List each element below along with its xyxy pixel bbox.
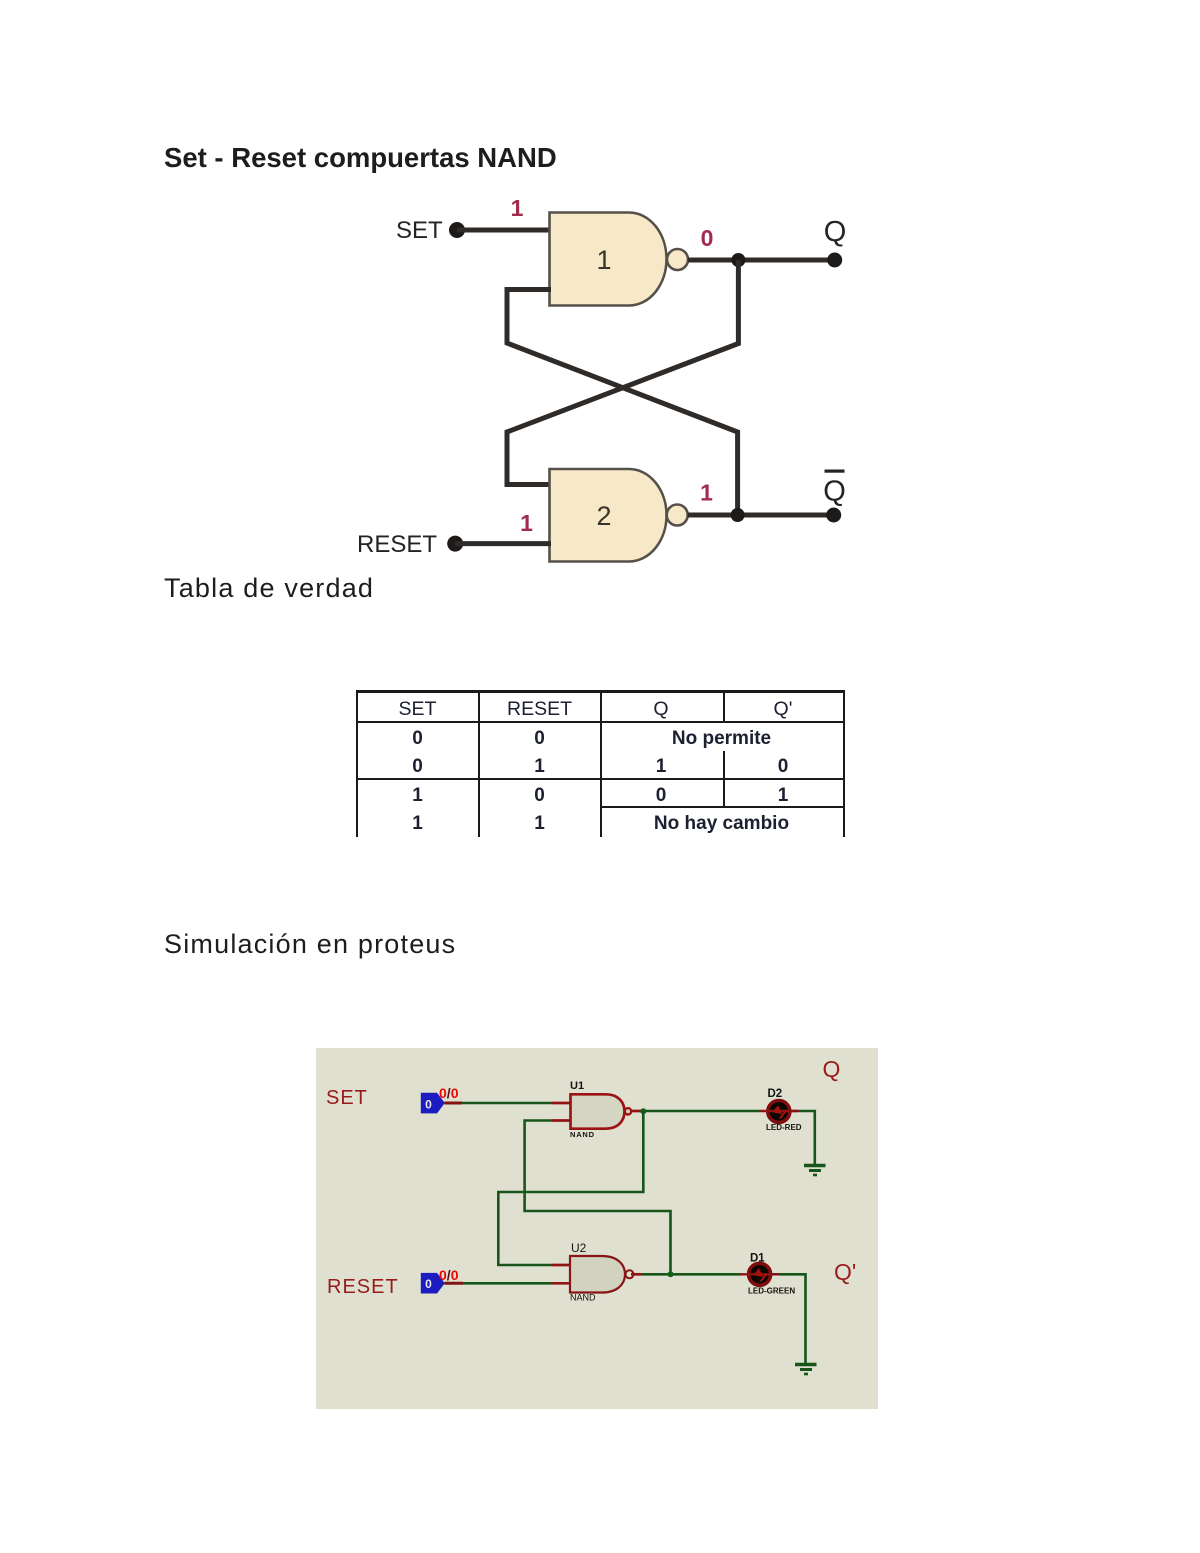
wire SET input to gate 1 — [457, 228, 551, 233]
LED D2 — [760, 1088, 802, 1132]
table divider Q/Q' rows segment — [723, 751, 725, 807]
net label Q — [823, 1056, 841, 1082]
ground symbol near D1 — [795, 1365, 817, 1375]
svg-text:0: 0 — [425, 1277, 432, 1291]
table partial row divider under Q/Q' — [600, 806, 844, 808]
wire cross-coupling from gate 1 output to gate 2 upper input — [507, 260, 738, 485]
svg-text:Q': Q' — [834, 1259, 856, 1285]
svg-text:0: 0 — [425, 1098, 432, 1112]
wire gate 2 output to Q-bar — [688, 513, 834, 518]
table row 3 — [357, 785, 478, 807]
svg-text:Q: Q — [823, 1056, 841, 1082]
net label Q' — [834, 1259, 856, 1285]
svg-text:SET: SET — [326, 1087, 368, 1109]
svg-text:LED-RED: LED-RED — [766, 1123, 802, 1132]
wire U1 output to LED D2 — [631, 1110, 760, 1113]
label RESET — [327, 1276, 399, 1298]
wire gate 1 output to Q — [688, 258, 835, 263]
LED D1 — [740, 1252, 795, 1295]
svg-text:0/0: 0/0 — [439, 1267, 459, 1283]
NAND gate 1 — [550, 213, 667, 306]
table header underline — [356, 721, 844, 723]
table header Q' — [723, 698, 843, 721]
node RESET terminal — [447, 536, 463, 552]
svg-text:NAND: NAND — [570, 1293, 596, 1303]
label Q — [824, 216, 847, 248]
logic state marker for RESET — [421, 1267, 459, 1294]
table row divider full width — [356, 778, 844, 780]
node Q terminal — [827, 253, 842, 268]
heading: Set - Reset compuertas NAND — [164, 142, 557, 174]
table divider RESET/Q — [600, 690, 602, 837]
wire SET to U1 upper input — [444, 1102, 571, 1105]
wire U2 output to LED D1 — [631, 1273, 741, 1276]
table header RESET — [479, 698, 600, 721]
label SET — [326, 1087, 368, 1109]
label RESET — [357, 531, 437, 558]
wire from U1 output junction to U2 upper input — [498, 1111, 643, 1265]
table row 2 — [357, 756, 478, 778]
table left border — [356, 690, 358, 837]
node SET terminal — [449, 222, 465, 238]
heading: Simulacion en proteus — [164, 929, 456, 960]
table row 1 — [357, 728, 478, 750]
junction node at gate 2 output — [731, 508, 745, 522]
svg-text:U2: U2 — [571, 1241, 587, 1255]
red logic value 1 on SET input — [511, 195, 524, 221]
wire LED D1 to ground — [771, 1274, 806, 1363]
red logic value 1 on gate 2 output — [700, 480, 713, 506]
NAND gate 2 — [550, 469, 667, 562]
wire from U2 output junction to U1 lower input — [525, 1121, 671, 1275]
heading: Tabla de verdad — [164, 573, 374, 604]
truth table — [0, 0, 1200, 900]
svg-text:U1: U1 — [570, 1080, 584, 1092]
junction node at gate 1 output — [731, 253, 745, 267]
Proteus simulation screenshot — [316, 1048, 878, 1409]
table top border — [356, 690, 844, 693]
table row 4 — [357, 813, 478, 835]
red logic value 1 on RESET input — [520, 510, 533, 536]
svg-text:LED-GREEN: LED-GREEN — [748, 1287, 795, 1296]
svg-text:NAND: NAND — [570, 1130, 595, 1139]
NAND gate U2 — [570, 1241, 634, 1303]
label Q-bar — [823, 470, 846, 508]
wire LED D2 to ground — [790, 1111, 815, 1164]
NAND gate U1 — [570, 1080, 631, 1139]
table header SET — [357, 698, 478, 721]
wire RESET to U2 lower input — [444, 1282, 571, 1285]
wire cross-coupling from gate 2 output to gate 1 lower input — [507, 290, 738, 515]
svg-text:0/0: 0/0 — [439, 1085, 459, 1101]
table divider SET/RESET — [478, 690, 480, 837]
gate 1 output bubble — [667, 249, 688, 270]
junction node at U2 output — [668, 1271, 674, 1277]
red logic value 0 on gate 1 output — [701, 225, 714, 251]
table header Q — [600, 698, 722, 721]
circuit figure: SR latch with NAND gates — [330, 185, 870, 580]
gate 2 output bubble — [667, 505, 688, 526]
node Q-bar terminal — [826, 508, 841, 523]
table right border — [843, 690, 845, 837]
svg-text:D2: D2 — [768, 1088, 783, 1100]
svg-text:RESET: RESET — [327, 1276, 399, 1298]
logic state marker for SET — [421, 1085, 459, 1113]
label SET — [396, 217, 443, 244]
table divider Q/Q' header segment — [723, 690, 725, 722]
junction node at U1 output — [640, 1108, 646, 1114]
wire RESET input to gate 2 — [455, 541, 551, 546]
Proteus canvas background — [316, 1048, 878, 1409]
ground symbol near D2 — [804, 1166, 826, 1176]
